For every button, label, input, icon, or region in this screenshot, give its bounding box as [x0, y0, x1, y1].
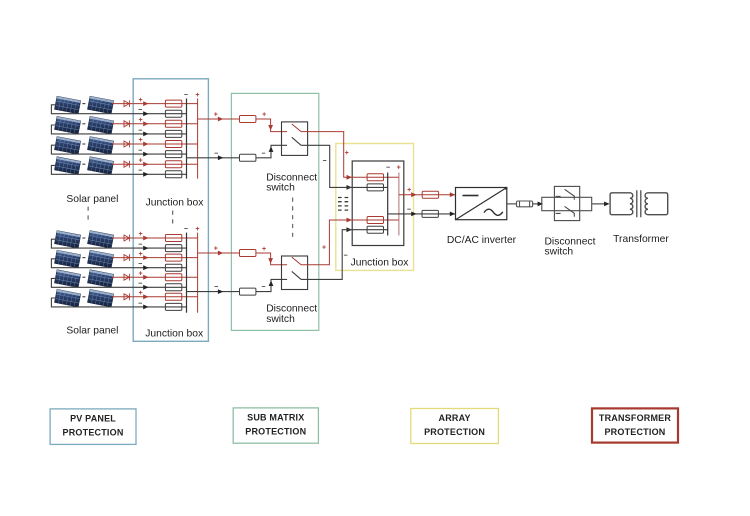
svg-text:+: +	[214, 111, 218, 118]
wire (series link between modules)	[82, 103, 85, 105]
DC/AC inverter U1	[456, 188, 507, 220]
repetition marks (more sub-array inputs)	[338, 198, 348, 211]
svg-text:−: −	[138, 148, 142, 155]
svg-text:+: +	[139, 157, 143, 164]
arrow (into array junction box)	[347, 218, 352, 223]
svg-text:ARRAY: ARRAY	[439, 413, 471, 423]
svg-text:+: +	[262, 111, 266, 118]
bus bar - (junction box B)	[186, 233, 188, 313]
fuse (inverter DC input -)	[422, 210, 438, 217]
blocking diode string A2	[124, 120, 130, 127]
array enclosure (yellow)	[336, 144, 414, 271]
svg-text:−: −	[138, 127, 142, 134]
fuse SW-B - (sub-matrix)	[240, 288, 256, 295]
wire (AC disconnect to transformer)	[592, 203, 609, 205]
svg-text:+: +	[139, 137, 143, 144]
switch blade + (open)	[292, 124, 301, 132]
arrow (+ current direction)	[143, 294, 148, 299]
arrow (+ into inverter)	[450, 192, 455, 197]
wire (string - return conductor)	[51, 298, 186, 307]
svg-text:−: −	[138, 300, 142, 307]
bus bar - (array junction box)	[387, 173, 389, 236]
arrow (- output)	[218, 289, 223, 294]
wire (series link between modules)	[82, 163, 85, 165]
svg-text:−: −	[138, 168, 142, 175]
array fuse 2 -	[367, 226, 383, 233]
wire (string - return conductor)	[51, 278, 186, 287]
arrow (- current direction)	[143, 265, 148, 270]
solar panel module B4b	[88, 289, 114, 307]
svg-text:−: −	[323, 158, 327, 165]
wire (string + conductor to junction box bus)	[112, 296, 198, 298]
wire (series link between modules)	[82, 276, 85, 278]
fuse string A1 +	[165, 100, 181, 107]
svg-text:+: +	[195, 92, 199, 99]
solar panel module A1a	[55, 96, 81, 114]
bus bar + (junction box B)	[197, 233, 199, 313]
blocking diode string B2	[124, 254, 130, 261]
svg-text:+: +	[262, 246, 266, 253]
svg-text:−: −	[214, 150, 218, 157]
wire (string + conductor to junction box bus)	[112, 103, 198, 105]
fuse SW-B + (sub-matrix)	[240, 250, 256, 257]
arrow (into array junction box)	[347, 185, 352, 190]
svg-text:+: +	[139, 251, 143, 258]
fuse string A2 +	[165, 120, 181, 127]
svg-text:+: +	[139, 97, 143, 104]
svg-text:switch: switch	[545, 246, 574, 257]
fuse (inverter DC input +)	[422, 191, 438, 198]
svg-text:−: −	[138, 281, 142, 288]
svg-text:+: +	[139, 290, 143, 297]
svg-text:+: +	[214, 245, 218, 252]
fuse string A3 -	[165, 151, 181, 158]
wire (string + conductor to junction box bus)	[112, 143, 198, 145]
solar panel module A3b	[88, 137, 114, 155]
transformer core	[637, 190, 641, 217]
svg-text:Solar panel: Solar panel	[66, 325, 118, 336]
switch blade + (open)	[292, 257, 301, 265]
arrow (+ current direction)	[143, 121, 148, 126]
continuation mark (below Junction box label)	[172, 211, 174, 228]
solar panel module B1a	[55, 231, 81, 249]
arrow (- current direction)	[143, 111, 148, 116]
wire (string - return conductor)	[51, 105, 186, 114]
array fuse 2 +	[367, 217, 383, 224]
bus bar + (array junction box)	[398, 173, 400, 236]
solar panel module A4b	[88, 157, 114, 175]
solar panel module B2a	[55, 250, 81, 268]
solar panel module A3a	[55, 137, 81, 155]
svg-text:+: +	[397, 165, 401, 172]
solar panel module A2b	[88, 116, 114, 134]
wire (string - return conductor)	[51, 259, 186, 268]
solar panel module A4a	[55, 157, 81, 175]
arrow (+ current direction)	[143, 255, 148, 260]
wire (string - return conductor)	[51, 145, 186, 154]
wire (array - output to inverter)	[388, 213, 456, 215]
transformer T1 primary winding	[610, 193, 633, 215]
svg-text:+: +	[195, 226, 199, 233]
svg-text:−: −	[407, 207, 411, 214]
arrow (into transformer)	[604, 202, 609, 207]
svg-text:−: −	[138, 261, 142, 268]
bus bar - (junction box A)	[186, 99, 188, 179]
arrow (- current direction)	[143, 305, 148, 310]
wire (series link between modules)	[82, 257, 85, 259]
blocking diode string B4	[124, 293, 130, 300]
solar panel module A1b	[88, 96, 114, 114]
sub matrix protection legend box	[233, 408, 318, 443]
blocking diode string A1	[124, 100, 130, 107]
arrow (- into inverter)	[450, 212, 455, 217]
svg-text:−: −	[138, 242, 142, 249]
svg-text:+: +	[322, 244, 326, 251]
fuse string A2 -	[165, 130, 181, 137]
wire (- from switch to array junction box)	[301, 230, 347, 280]
svg-text:Solar panel: Solar panel	[66, 194, 118, 205]
PV panel protection legend box	[50, 409, 136, 445]
wire (junction box B + output)	[198, 252, 240, 254]
wire (string + conductor to junction box bus)	[112, 276, 198, 278]
wire (+ from switch to array junction box)	[301, 220, 347, 265]
svg-text:+: +	[139, 117, 143, 124]
svg-text:DC/AC inverter: DC/AC inverter	[447, 235, 517, 246]
solar panel module B3a	[55, 270, 81, 288]
arrow (into array junction box)	[347, 227, 352, 232]
svg-text:+: +	[139, 231, 143, 238]
AC sine symbol (inverter)	[484, 209, 503, 215]
wire (junction box B - output)	[187, 291, 240, 293]
solar panel module B4a	[55, 289, 81, 307]
wire (string - return conductor)	[51, 165, 186, 174]
solar panel module A2a	[55, 116, 81, 134]
transformer protection legend box	[592, 408, 678, 442]
wire (array junction box row)	[347, 176, 399, 178]
arrow (- up into switch)	[269, 281, 274, 286]
continuation mark (between disconnect switches)	[292, 198, 294, 239]
svg-text:−: −	[214, 284, 218, 291]
DC symbol (inverter)	[463, 195, 479, 197]
blocking diode string A3	[124, 141, 130, 148]
wire (series link between modules)	[82, 237, 85, 239]
junction box enclosure (PV junction boxes, blue)	[133, 79, 208, 342]
arrow (- current direction)	[143, 132, 148, 137]
svg-text:Junction box: Junction box	[351, 258, 410, 269]
arrow (+ leaving array box)	[411, 192, 416, 197]
svg-text:PROTECTION: PROTECTION	[424, 427, 485, 437]
arrow (+ down into switch)	[268, 125, 273, 130]
arrow (- current direction)	[143, 172, 148, 177]
solar panel module B1b	[88, 231, 114, 249]
arrow (- up into switch)	[269, 147, 274, 152]
transformer T1 secondary winding	[645, 193, 668, 215]
array protection legend box	[411, 409, 499, 444]
svg-text:Junction box: Junction box	[145, 329, 204, 340]
wire (- from switch to array junction box)	[301, 145, 347, 187]
svg-text:−: −	[261, 150, 265, 157]
wire (string - return conductor)	[51, 239, 186, 248]
switch blade (AC pole 1)	[556, 189, 575, 200]
wire (series link between modules)	[82, 123, 85, 125]
wire (series link between modules)	[82, 143, 85, 145]
arrow (+ output)	[218, 117, 223, 122]
arrow (+ current direction)	[143, 275, 148, 280]
wire (array junction box row)	[347, 229, 388, 231]
svg-text:PROTECTION: PROTECTION	[604, 427, 665, 437]
svg-text:Transformer: Transformer	[613, 234, 669, 245]
svg-text:TRANSFORMER: TRANSFORMER	[599, 413, 671, 423]
arrow (- current direction)	[143, 285, 148, 290]
fuse string A3 +	[165, 141, 181, 148]
wire (junction box A - output)	[187, 157, 240, 159]
wire (string + conductor to junction box bus)	[112, 237, 198, 239]
svg-text:+: +	[345, 150, 349, 157]
svg-text:switch: switch	[266, 314, 295, 325]
solar panel module B2b	[88, 250, 114, 268]
wire (junction box A + output)	[198, 118, 240, 120]
solar panel module B3b	[88, 270, 114, 288]
svg-text:−: −	[343, 252, 347, 259]
wire (- into disconnect switch)	[256, 279, 287, 291]
wire (array + output to inverter)	[399, 194, 456, 196]
disconnect switch SW-B body	[282, 256, 308, 290]
fuse string A4 +	[165, 161, 181, 168]
wire (inverter AC output)	[507, 203, 542, 205]
arrow (- current direction)	[143, 246, 148, 251]
fuse string A1 -	[165, 110, 181, 117]
wire (string + conductor to junction box bus)	[112, 123, 198, 125]
svg-text:−: −	[261, 284, 265, 291]
svg-text:+: +	[407, 187, 411, 194]
blocking diode string A4	[124, 161, 130, 168]
svg-text:−: −	[386, 165, 390, 172]
wire (string - return conductor)	[51, 125, 186, 134]
wire (array junction box row)	[347, 186, 388, 188]
sub matrix enclosure (green)	[231, 93, 318, 330]
wire (+ from switch to array junction box)	[301, 132, 347, 178]
fuse string B4 +	[165, 293, 181, 300]
fuse string B4 -	[165, 303, 181, 310]
arrow (+ down into switch)	[268, 258, 273, 263]
switch blade - (open)	[292, 137, 301, 145]
arrow (- current direction)	[143, 152, 148, 157]
wire (array junction box row)	[347, 219, 399, 221]
fuse (AC output cartridge)	[517, 201, 533, 207]
AC disconnect switch body (vertical)	[554, 186, 579, 220]
array junction box body	[352, 161, 404, 246]
array fuse 1 +	[367, 174, 383, 181]
svg-text:Junction box: Junction box	[146, 197, 205, 208]
fuse string B1 +	[165, 235, 181, 242]
wire (string + conductor to junction box bus)	[112, 163, 198, 165]
svg-text:−: −	[138, 107, 142, 114]
svg-text:PROTECTION: PROTECTION	[245, 427, 306, 437]
fuse string B3 -	[165, 284, 181, 291]
arrow (- leaving array box)	[411, 212, 416, 217]
fuse string B2 -	[165, 264, 181, 271]
wire (- into disconnect switch)	[256, 145, 287, 158]
fuse string B3 +	[165, 274, 181, 281]
wire (+ into disconnect switch)	[256, 253, 287, 265]
wire (string + conductor to junction box bus)	[112, 257, 198, 259]
fuse SW-A - (sub-matrix)	[240, 154, 256, 161]
arrow (into AC disconnect switch)	[538, 202, 543, 207]
disconnect switch SW-A body	[282, 122, 308, 155]
svg-text:PROTECTION: PROTECTION	[63, 428, 124, 438]
continuation mark (below Solar panel label)	[87, 207, 89, 223]
switch blade - (open)	[292, 271, 301, 279]
AC disconnect switch body (horizontal)	[542, 197, 592, 210]
svg-text:−: −	[184, 92, 188, 99]
node (inverter corner)	[505, 187, 508, 190]
wire (+ into disconnect switch)	[256, 119, 287, 132]
arrow (+ output)	[218, 251, 223, 256]
fuse SW-A + (sub-matrix)	[240, 116, 256, 123]
bus bar + (junction box A)	[197, 99, 199, 179]
svg-text:PV PANEL: PV PANEL	[70, 414, 116, 424]
arrow (+ current direction)	[143, 101, 148, 106]
arrow (+ current direction)	[143, 236, 148, 241]
arrow (+ current direction)	[143, 162, 148, 167]
svg-text:switch: switch	[266, 182, 295, 193]
blocking diode string B1	[124, 235, 130, 242]
fuse string A4 -	[165, 171, 181, 178]
switch blade (AC pole 2)	[556, 206, 575, 216]
svg-text:SUB MATRIX: SUB MATRIX	[247, 413, 304, 423]
svg-text:+: +	[139, 270, 143, 277]
fuse string B1 -	[165, 245, 181, 252]
arrow (into array junction box)	[347, 175, 352, 180]
fuse string B2 +	[165, 254, 181, 261]
wire (series link between modules)	[82, 296, 85, 298]
blocking diode string B3	[124, 274, 130, 281]
arrow (+ current direction)	[143, 142, 148, 147]
svg-text:−: −	[184, 226, 188, 233]
arrow (- output)	[218, 155, 223, 160]
array fuse 1 -	[367, 184, 383, 191]
